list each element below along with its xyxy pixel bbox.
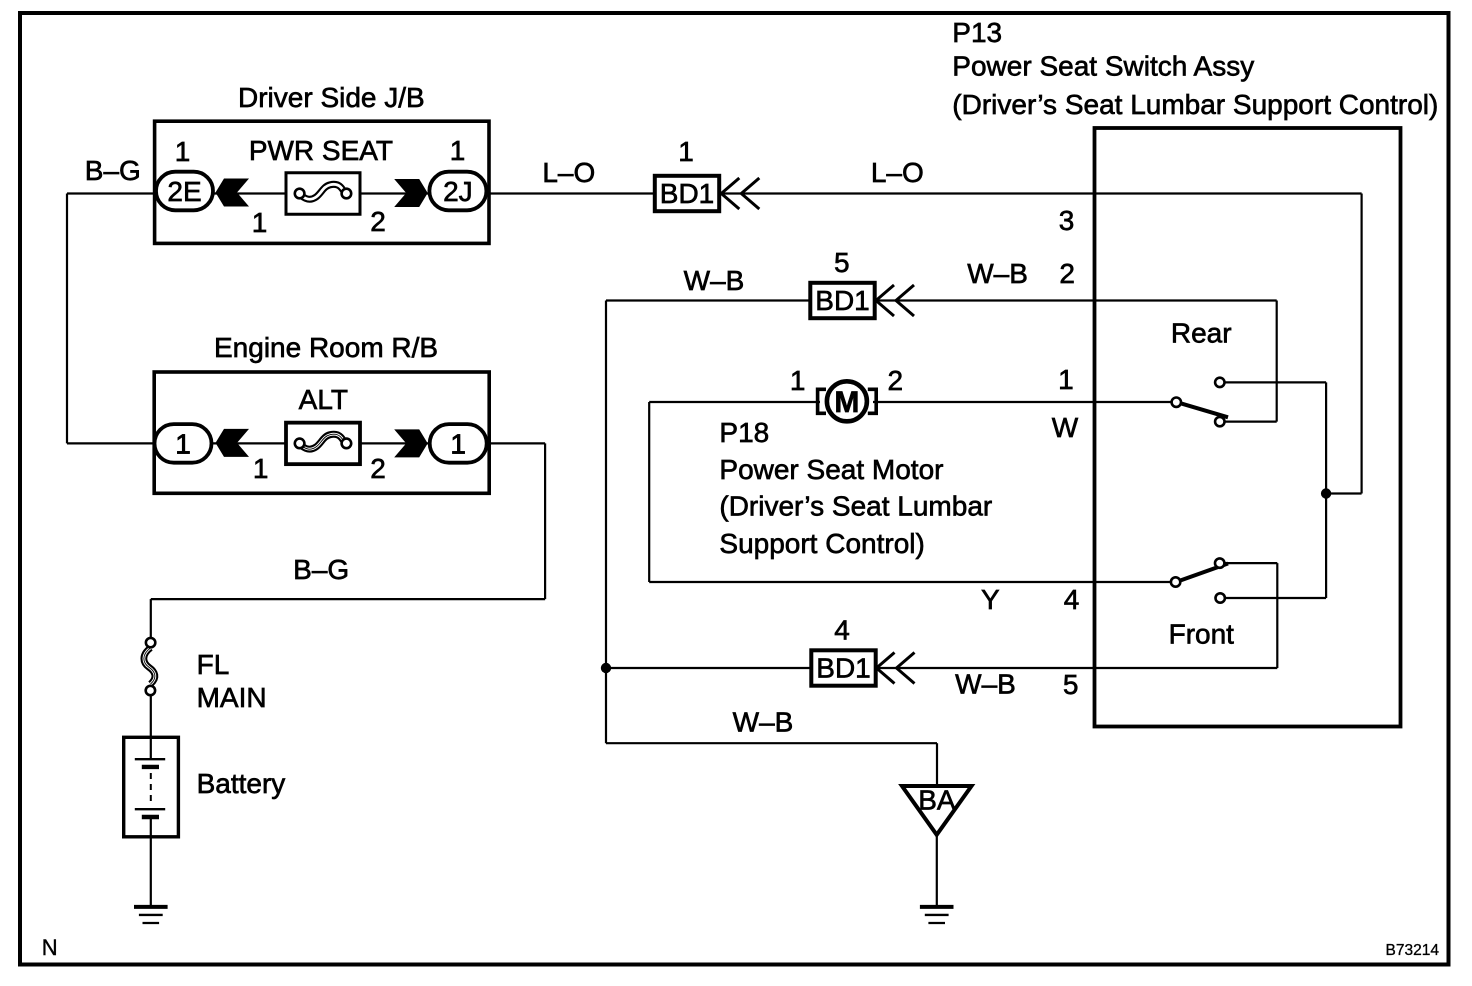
svg-text:(Driver’s Seat Lumbar: (Driver’s Seat Lumbar (719, 491, 992, 522)
svg-text:1: 1 (790, 365, 806, 396)
svg-text:5: 5 (834, 247, 850, 278)
svg-text:2: 2 (888, 365, 904, 396)
svg-text:B73214: B73214 (1386, 942, 1440, 959)
svg-text:MAIN: MAIN (197, 682, 267, 713)
svg-text:W–B: W–B (955, 669, 1016, 700)
svg-text:PWR SEAT: PWR SEAT (249, 135, 393, 166)
svg-text:(Driver’s Seat Lumbar Support: (Driver’s Seat Lumbar Support Control) (952, 89, 1438, 120)
svg-text:W–B: W–B (967, 258, 1028, 289)
svg-text:L–O: L–O (542, 157, 595, 188)
svg-text:2J: 2J (443, 176, 473, 207)
svg-text:Engine Room R/B: Engine Room R/B (214, 332, 438, 363)
svg-text:W: W (1052, 412, 1079, 443)
svg-text:BD1: BD1 (816, 653, 870, 684)
svg-text:1: 1 (678, 136, 694, 167)
svg-text:Y: Y (981, 584, 1000, 615)
svg-text:1: 1 (252, 207, 268, 238)
svg-text:Power Seat Switch Assy: Power Seat Switch Assy (952, 51, 1254, 82)
svg-text:1: 1 (450, 429, 466, 460)
svg-text:1: 1 (175, 429, 191, 460)
svg-text:Support Control): Support Control) (719, 528, 924, 559)
svg-text:Rear: Rear (1171, 318, 1232, 349)
svg-text:BD1: BD1 (660, 178, 714, 209)
svg-text:P18: P18 (719, 417, 769, 448)
svg-text:BD1: BD1 (815, 285, 869, 316)
svg-text:2: 2 (370, 206, 386, 237)
svg-text:3: 3 (1059, 205, 1075, 236)
svg-text:4: 4 (1064, 584, 1080, 615)
svg-text:M: M (834, 386, 859, 419)
svg-text:Front: Front (1169, 619, 1235, 650)
svg-text:ALT: ALT (299, 384, 348, 415)
svg-text:2: 2 (370, 453, 386, 484)
svg-text:1: 1 (175, 136, 191, 167)
svg-text:4: 4 (834, 615, 850, 646)
svg-text:2E: 2E (167, 176, 201, 207)
svg-text:1: 1 (450, 135, 466, 166)
svg-text:1: 1 (253, 453, 269, 484)
svg-text:BA: BA (918, 785, 956, 816)
svg-text:L–O: L–O (871, 157, 924, 188)
svg-text:B–G: B–G (85, 155, 141, 186)
svg-text:FL: FL (197, 649, 230, 680)
svg-text:Power Seat Motor: Power Seat Motor (719, 454, 943, 485)
svg-text:5: 5 (1063, 669, 1079, 700)
svg-text:Battery: Battery (197, 768, 286, 799)
svg-text:1: 1 (1058, 364, 1074, 395)
svg-text:N: N (42, 935, 58, 960)
svg-text:2: 2 (1059, 258, 1075, 289)
svg-text:Driver Side J/B: Driver Side J/B (238, 82, 425, 113)
svg-text:W–B: W–B (684, 265, 745, 296)
svg-text:P13: P13 (952, 17, 1002, 48)
svg-text:B–G: B–G (293, 554, 349, 585)
svg-text:W–B: W–B (733, 707, 794, 738)
